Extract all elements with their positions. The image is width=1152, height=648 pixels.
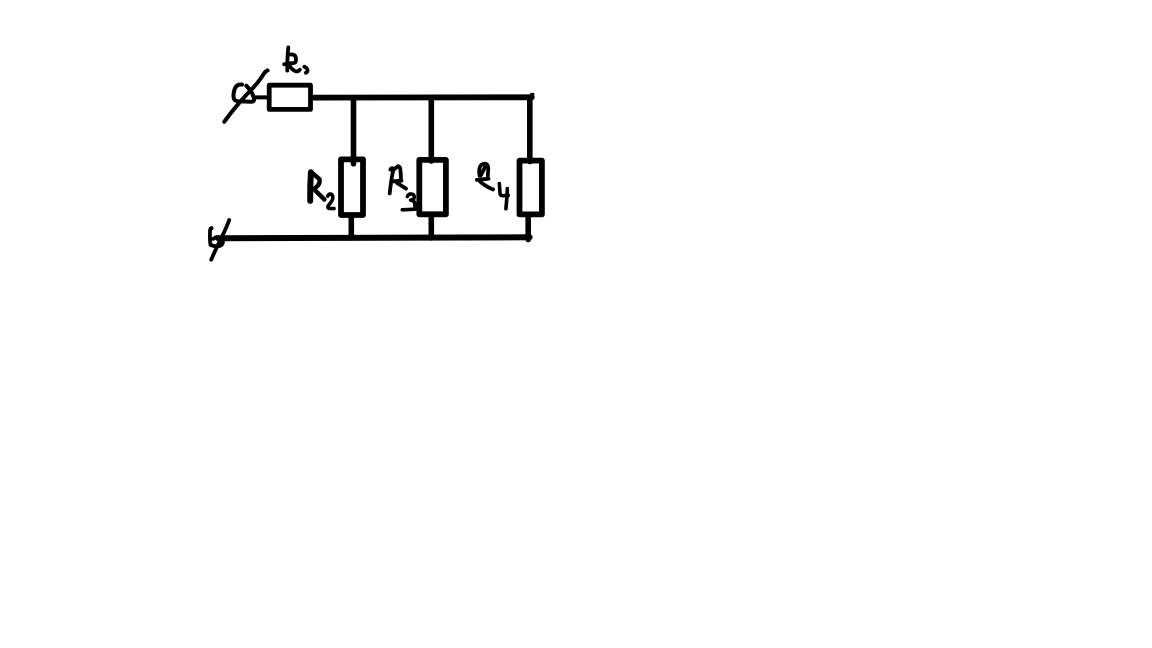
label R4 bbox=[477, 164, 508, 209]
wire bottom bus bbox=[218, 234, 529, 241]
resistor R1 bbox=[269, 85, 310, 109]
wire top bus bbox=[312, 94, 532, 100]
resistor R2 bbox=[341, 159, 363, 215]
wire R2 top bbox=[351, 99, 357, 164]
nub at right end of top bus bbox=[531, 93, 533, 96]
resistor R3 bbox=[419, 160, 446, 214]
wire R4 bottom bbox=[525, 217, 531, 240]
label R1 bbox=[284, 47, 307, 72]
resistor R4 bbox=[520, 161, 542, 215]
wire R3 top bbox=[428, 99, 434, 161]
terminal b bbox=[210, 220, 229, 260]
label R3 bbox=[390, 166, 415, 210]
wire R3 bottom bbox=[428, 217, 434, 239]
wire R4 top bbox=[527, 99, 533, 162]
wire R2 bottom bbox=[348, 217, 354, 239]
terminal a bbox=[224, 70, 267, 121]
label R2 bbox=[310, 172, 334, 208]
wire a to R1 bbox=[255, 95, 269, 99]
